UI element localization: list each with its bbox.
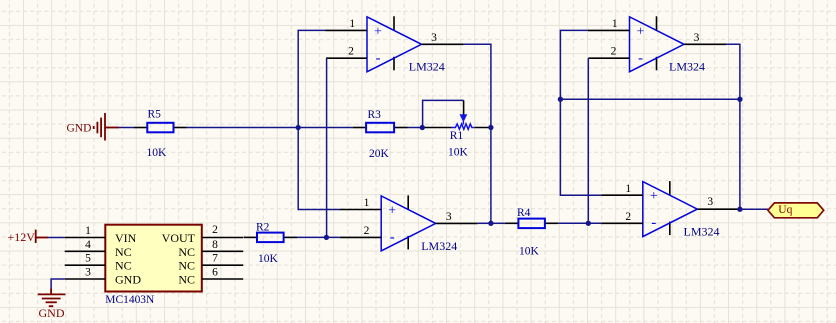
pin 1 of U1A (326, 29, 368, 31)
junction node G (U1D out) (737, 207, 742, 212)
svg-text:+: + (637, 24, 645, 39)
wire U1D output to port Uq (739, 208, 768, 210)
pin 6 of U2 (202, 278, 243, 280)
wire U1C output down to U1D output node (726, 44, 740, 209)
svg-text:3: 3 (446, 211, 452, 223)
svg-text:2: 2 (212, 224, 218, 236)
svg-text:R5: R5 (148, 109, 162, 121)
svg-text:10K: 10K (147, 147, 168, 159)
svg-text:VIN: VIN (115, 231, 137, 245)
junction node D (R4 / U1C pin2) (586, 221, 591, 226)
op-amp U1B (bottom-left) (381, 195, 436, 251)
port Uq (768, 203, 824, 218)
wire R3 to node A (408, 127, 423, 129)
op-amp U1C (top-right) (630, 16, 685, 72)
svg-text:NC: NC (178, 273, 195, 287)
power ground symbol GND (left, bars style) (94, 113, 119, 141)
wire U1C pin2 down to R4 output node (587, 58, 589, 223)
svg-text:2: 2 (348, 46, 354, 58)
svg-text:8: 8 (212, 239, 218, 251)
wire R4 to U1D pin2 (558, 222, 601, 224)
svg-text:R2: R2 (256, 222, 270, 234)
svg-text:LM324: LM324 (409, 60, 445, 74)
wire U1A pin2 to node C (326, 58, 328, 237)
wire U1A pin1 to U2A pin1 (left loop) (298, 30, 339, 209)
wire +12V to U2 pin1 (48, 237, 65, 239)
svg-text:1: 1 (625, 183, 631, 195)
svg-text:3: 3 (707, 196, 713, 208)
svg-text:7: 7 (212, 253, 218, 265)
pin 2 of U1D (601, 222, 643, 224)
resistor R4 (505, 219, 558, 229)
svg-text:6: 6 (212, 267, 218, 279)
wire U1C pin1 down to feedback rail and U1D pin1 (560, 30, 601, 195)
svg-text:2: 2 (625, 211, 631, 223)
svg-text:3: 3 (694, 32, 700, 44)
svg-text:1: 1 (612, 18, 618, 30)
pin 3 of U1D (697, 208, 739, 210)
svg-text:10K: 10K (258, 253, 279, 265)
junction node A (R3 / R1 wiper) (420, 125, 425, 130)
svg-text:-: - (651, 215, 656, 231)
pin 2 of U1B (340, 236, 381, 238)
svg-text:1: 1 (349, 18, 355, 30)
svg-text:-: - (390, 229, 395, 245)
junction node E (feedback rail left) (558, 97, 563, 102)
junction node B (R1 / U1A out) (488, 125, 493, 130)
svg-text:LM324: LM324 (669, 60, 705, 74)
pin 5 of U2 (65, 264, 106, 266)
svg-text:GND: GND (39, 306, 65, 320)
svg-text:3: 3 (431, 32, 437, 44)
wire R1 right pin to node B (474, 127, 491, 129)
pin 2 of U1A (326, 57, 367, 59)
svg-text:NC: NC (178, 259, 195, 273)
svg-text:+12V: +12V (8, 230, 36, 244)
resistor R2 (244, 233, 297, 243)
wire node B2 to R4 (491, 222, 505, 224)
svg-text:GND: GND (115, 273, 141, 287)
svg-text:-: - (638, 50, 643, 66)
junction node B2 (U1B out / R4) (488, 221, 493, 226)
svg-text:NC: NC (115, 259, 132, 273)
pin 3 of U1A (422, 43, 464, 45)
pin 7 of U2 (202, 264, 243, 266)
svg-text:R3: R3 (368, 109, 382, 121)
wire node A to R1 left pin (422, 127, 451, 129)
pin 4 of U2 (65, 250, 106, 252)
svg-text:-: - (376, 50, 381, 66)
wire U2 pin3 to earth ground (51, 279, 65, 289)
pin 3 of U1B (436, 222, 478, 224)
junction node H (op1 pin1 loop / R5-R3 rail) (296, 125, 301, 130)
svg-text:2: 2 (611, 46, 617, 58)
IC U2 MC1403N body (105, 225, 202, 292)
power bar +12V (36, 230, 48, 243)
wire R2 to U1B pin2 (297, 236, 340, 238)
junction node F (feedback rail right) (737, 97, 742, 102)
svg-text:Uq: Uq (778, 204, 792, 216)
wire GND to R5 (119, 127, 134, 129)
svg-text:NC: NC (115, 245, 132, 259)
svg-text:20K: 20K (369, 148, 390, 160)
svg-text:+: + (650, 189, 658, 204)
potentiometer R1 (zigzag) (452, 124, 474, 129)
earth ground symbol GND (below U2) (38, 289, 66, 307)
R1 wiper arrow (460, 115, 466, 125)
wire R1 wiper loop (423, 100, 464, 127)
resistor R5 (134, 123, 187, 133)
svg-text:LM324: LM324 (684, 225, 720, 239)
svg-text:MC1403N: MC1403N (105, 292, 154, 306)
wire U1A output to node B (464, 44, 491, 223)
svg-text:2: 2 (364, 225, 370, 237)
svg-text:1: 1 (364, 197, 370, 209)
svg-text:NC: NC (178, 245, 195, 259)
op-amp U1D (bottom-right) (643, 181, 698, 237)
svg-text:10K: 10K (448, 147, 469, 159)
svg-text:10K: 10K (519, 246, 540, 258)
pin 1 of U1D (601, 194, 643, 196)
svg-text:3: 3 (85, 267, 91, 279)
svg-text:4: 4 (85, 239, 91, 251)
svg-text:R4: R4 (517, 207, 531, 219)
svg-text:5: 5 (85, 253, 91, 265)
svg-text:+: + (374, 24, 382, 39)
resistor R3 (353, 123, 408, 133)
svg-text:+: + (388, 203, 396, 218)
pin 3 of U1C (684, 43, 726, 45)
svg-text:1: 1 (85, 225, 91, 237)
wire feedback rail (560, 98, 740, 100)
svg-text:LM324: LM324 (421, 239, 457, 253)
wire U1B output to node B2 (478, 222, 491, 224)
wire wiper drop (463, 100, 465, 115)
svg-text:R1: R1 (450, 130, 464, 142)
pin 1 of U1C (588, 29, 630, 31)
junction node C (R2 / U1A pin2) (324, 235, 329, 240)
pin 1 of U1B (340, 209, 382, 211)
svg-text:VOUT: VOUT (162, 231, 196, 245)
pin 1 of U2 (65, 237, 106, 239)
pin 2 of U2 (202, 237, 243, 239)
svg-text:GND: GND (67, 122, 92, 134)
pin 8 of U2 (202, 250, 243, 252)
wire R5 to R3 (187, 127, 353, 129)
pin 3 of U2 (65, 278, 106, 280)
pin 2 of U1C (588, 57, 629, 59)
op-amp U1A (top-left) (367, 16, 422, 72)
